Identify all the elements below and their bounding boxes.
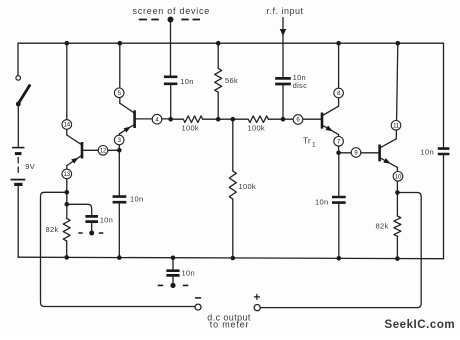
node dash ground centre: [158, 283, 189, 288]
junction node dots: [64, 41, 400, 261]
wire C4 to bottom rail: [338, 204, 340, 258]
svg-text:100k: 100k: [248, 123, 265, 132]
wire d.c. output minus: [41, 192, 195, 306]
wire C2 to bias line: [282, 85, 284, 119]
pin 7: [334, 137, 344, 147]
svg-text:disc: disc: [293, 81, 308, 90]
svg-text:to meter: to meter: [210, 320, 249, 330]
resistor R3 100k horizontal left: [182, 116, 203, 132]
svg-text:1: 1: [312, 142, 316, 149]
node screen dashes: [133, 6, 211, 22]
wire right rail upper: [443, 43, 445, 147]
label d.c output to meter: [207, 313, 251, 330]
resistor R2 56k: [215, 43, 238, 119]
r.f. input lead and arrow: [267, 6, 304, 77]
pin 6: [293, 115, 303, 125]
capacitor C7 10n right rail: [421, 148, 450, 157]
svg-text:12: 12: [100, 149, 107, 155]
wire top supply rail: [18, 42, 444, 44]
svg-text:10n: 10n: [182, 268, 195, 277]
resistor R6 82k right: [376, 216, 401, 236]
pin 13: [62, 169, 72, 179]
wire d.c. output plus: [260, 193, 421, 308]
svg-text:10n: 10n: [315, 197, 328, 206]
transistor T2 (pins 5,3,12): [119, 103, 170, 134]
wire 82k left bottom lead: [66, 241, 68, 257]
pin 3: [114, 135, 124, 145]
pin 10: [393, 172, 403, 182]
pin 11: [391, 121, 401, 131]
wire T2 emitter drop to node: [118, 134, 120, 151]
pin 9: [351, 148, 361, 158]
wire bias line left segment: [171, 118, 184, 120]
svg-text:10n: 10n: [180, 77, 193, 86]
wire Tr1 collector riser: [338, 43, 340, 106]
node dash ground left: [78, 231, 103, 236]
switch S1: [16, 76, 30, 107]
capacitor C1 10n screen: [164, 77, 194, 86]
pin 14: [62, 120, 72, 130]
wire C5 to floating dash node: [91, 223, 93, 233]
wire T1 emitter drop: [66, 166, 68, 219]
wire emitter node to C4: [338, 153, 340, 196]
wire switch to battery: [17, 104, 19, 147]
wire emitter node to 82k right: [396, 193, 398, 217]
pin 4: [152, 114, 162, 124]
pin 5: [114, 88, 124, 98]
svg-text:11: 11: [393, 124, 400, 130]
svg-text:SeekIC.com: SeekIC.com: [385, 319, 456, 331]
svg-text:10n: 10n: [421, 148, 434, 157]
wire battery to bottom rail: [17, 186, 19, 257]
terminal plus: [254, 294, 260, 311]
wire Tr1 emitter drop: [338, 135, 340, 153]
wire C3 to bottom rail: [118, 203, 120, 257]
transistor Tr1 (pins 6,8,7): [303, 106, 339, 148]
wire left emitter node to 10n branch: [67, 204, 92, 215]
wire T4 emitter drop: [396, 167, 398, 192]
transistor T4 (pins 11,9,10): [380, 139, 398, 168]
svg-text:14: 14: [64, 123, 71, 129]
svg-text:56k: 56k: [225, 76, 238, 85]
resistor R4 100k horizontal right: [248, 116, 269, 132]
wire T1 collector riser: [66, 43, 68, 135]
resistor R5 100k vertical: [229, 119, 256, 258]
capacitor C2 10n disc: [275, 73, 307, 90]
wire T4 collector riser: [396, 43, 398, 139]
capacitor C6 10n bottom centre: [166, 258, 195, 285]
terminal minus: [195, 298, 201, 310]
svg-text:10: 10: [395, 175, 402, 181]
capacitor C3 10n: [113, 195, 144, 204]
svg-text:9V: 9V: [25, 162, 35, 171]
svg-text:screen of device: screen of device: [133, 6, 211, 16]
svg-text:10n: 10n: [130, 195, 143, 204]
capacitor C4 10n: [315, 197, 346, 206]
svg-text:100k: 100k: [239, 182, 256, 191]
capacitor C5 10n left: [85, 215, 113, 224]
transistor T1 (pins 14,12,13): [67, 135, 120, 166]
wire bottom rail: [18, 257, 444, 259]
svg-text:13: 13: [64, 172, 71, 178]
wire bias line right segment to Tr1 base: [268, 118, 321, 120]
svg-text:100k: 100k: [182, 123, 199, 132]
svg-text:82k: 82k: [376, 221, 389, 230]
pin 8: [334, 88, 344, 98]
pin 12: [98, 146, 108, 156]
svg-text:82k: 82k: [46, 225, 59, 234]
wire bias line mid segment: [203, 118, 249, 120]
wire screen of device lead: [170, 20, 172, 76]
svg-text:10n: 10n: [100, 215, 113, 224]
resistor R1 82k left: [46, 218, 71, 241]
wire 82k right bottom lead: [396, 236, 398, 258]
wire right rail lower: [443, 155, 445, 258]
wire T2 collector riser: [119, 43, 121, 103]
battery B1 9V: [11, 148, 36, 185]
wire node to capacitor C3: [118, 150, 120, 195]
wire C1 to bias line: [170, 85, 172, 119]
wire T4 base: [339, 152, 379, 154]
svg-text:r.f. input: r.f. input: [267, 6, 304, 16]
wire left rail to switch: [17, 43, 19, 75]
svg-text:Tr: Tr: [303, 136, 311, 146]
